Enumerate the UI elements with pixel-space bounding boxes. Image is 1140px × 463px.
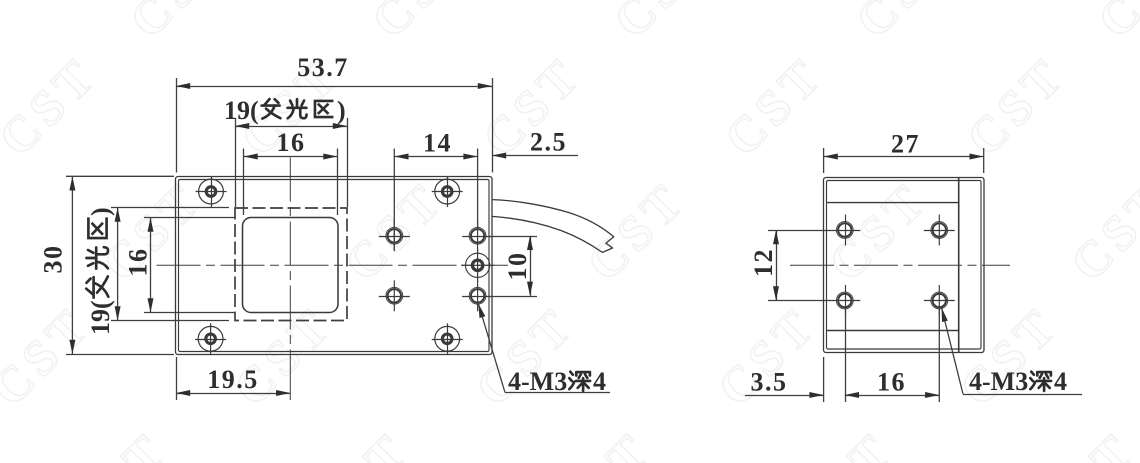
dim 53.7 overall width bbox=[176, 53, 493, 173]
top face edge line bbox=[826, 202, 958, 204]
svg-text:19(: 19( bbox=[224, 96, 259, 125]
dim 16 vertical bbox=[124, 218, 236, 313]
dim 14 hole spacing bbox=[394, 129, 477, 251]
svg-text:10: 10 bbox=[503, 252, 532, 281]
right view: side body outline (double line) bbox=[824, 178, 985, 353]
left view: sensor body outline (double line) bbox=[176, 177, 493, 355]
svg-text:53.7: 53.7 bbox=[297, 53, 349, 82]
cable exiting right side bbox=[492, 200, 614, 253]
svg-text:16: 16 bbox=[277, 128, 306, 157]
right view horizontal centerline bbox=[790, 264, 1010, 266]
center output hole (counterbored) bbox=[461, 249, 495, 282]
dim 19(emitting zone) vertical bbox=[111, 208, 229, 321]
svg-text:): ) bbox=[86, 207, 115, 216]
mounting hole bottom-right bbox=[432, 323, 463, 354]
leader 4-M3 deep4 (right view) bbox=[942, 308, 1083, 397]
svg-text:4: 4 bbox=[1054, 367, 1067, 396]
dim 3.5 edge offset bbox=[745, 357, 824, 402]
side flange vertical line bbox=[958, 178, 960, 353]
svg-text:12: 12 bbox=[749, 248, 778, 277]
svg-text:27: 27 bbox=[891, 130, 920, 159]
dim 19(emitting zone) horizontal bbox=[235, 118, 348, 207]
svg-text:19.5: 19.5 bbox=[207, 365, 259, 394]
svg-text:4-M3: 4-M3 bbox=[969, 367, 1028, 396]
svg-text:16: 16 bbox=[877, 368, 906, 397]
M3 tapped hole left-bottom bbox=[379, 280, 410, 311]
mounting hole top-left bbox=[196, 176, 227, 207]
horizontal centerline bbox=[157, 264, 509, 266]
dim 2.5 edge offset bbox=[492, 128, 578, 159]
label 19(fa-guang-qu) vertical bbox=[86, 207, 115, 335]
svg-text:3.5: 3.5 bbox=[751, 368, 788, 397]
M3 tapped hole left-top bbox=[379, 220, 410, 251]
dim 30 overall height bbox=[39, 176, 175, 354]
svg-text:4: 4 bbox=[593, 367, 606, 396]
label 19(fa-guang-qu) horizontal bbox=[224, 96, 346, 125]
svg-text:4-M3: 4-M3 bbox=[508, 367, 567, 396]
svg-text:16: 16 bbox=[124, 248, 153, 277]
rounded rect: 16x16 emitting window bbox=[243, 218, 339, 313]
svg-text:19(: 19( bbox=[86, 300, 115, 335]
svg-text:30: 30 bbox=[39, 245, 68, 274]
bottom face edge line bbox=[826, 330, 958, 332]
svg-text:14: 14 bbox=[423, 129, 452, 158]
leader 4-M3 deep4 (left view) bbox=[478, 304, 610, 397]
mounting hole top-right bbox=[432, 176, 463, 207]
dim 19.5 bbox=[176, 357, 290, 400]
dim 27 width bbox=[824, 130, 984, 174]
dim 10 hole spacing vertical bbox=[490, 236, 537, 297]
vertical centerline / 19.5 extension bbox=[289, 158, 291, 353]
M3 tapped hole top-right (side) bbox=[924, 215, 955, 246]
M3 tapped hole bottom-left (side) bbox=[829, 285, 860, 316]
M3 tapped hole right-top bbox=[462, 220, 493, 251]
dashed rect: 19x19 emitting zone boundary bbox=[235, 208, 347, 321]
mounting hole bottom-left bbox=[195, 323, 226, 354]
M3 tapped hole bottom-right (side) bbox=[924, 285, 955, 316]
dim 16 hole spacing bbox=[845, 308, 940, 402]
M3 tapped hole top-left (side) bbox=[829, 215, 860, 246]
svg-text:): ) bbox=[337, 96, 346, 125]
svg-text:2.5: 2.5 bbox=[530, 128, 567, 157]
dim 16 horizontal bbox=[244, 128, 338, 215]
dim 12 hole spacing vertical bbox=[749, 230, 830, 301]
M3 tapped hole right-bottom bbox=[462, 280, 493, 311]
